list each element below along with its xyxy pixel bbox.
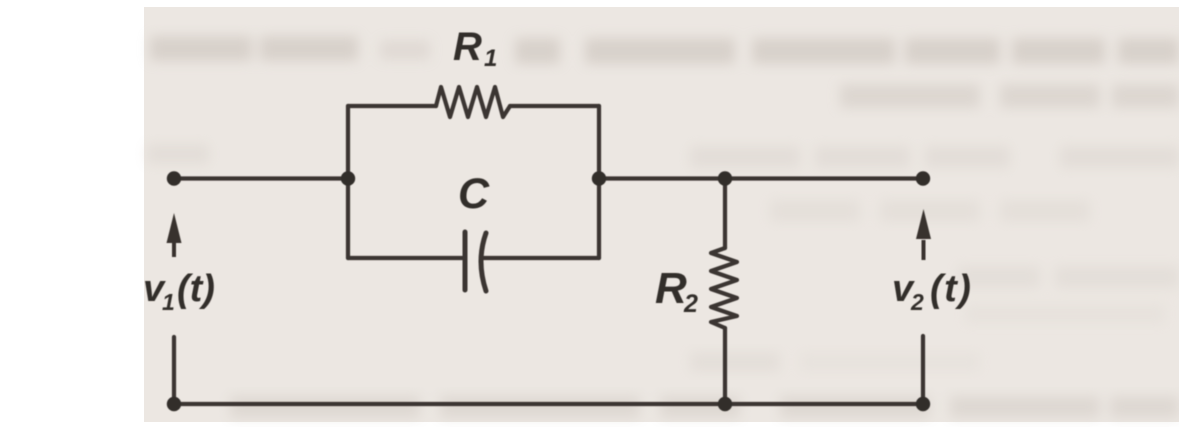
show-through smudge row 5 bbox=[958, 266, 1179, 324]
label v1(t) bbox=[143, 268, 215, 315]
wire: C branch left lead bbox=[348, 256, 462, 260]
svg-text:(t): (t) bbox=[177, 268, 215, 310]
wire: bottom return wire bbox=[174, 402, 923, 406]
svg-text:R: R bbox=[453, 25, 482, 69]
node dot: input top bbox=[167, 171, 181, 185]
wire: R1 branch left lead bbox=[348, 104, 436, 108]
label v2(t) bbox=[892, 268, 972, 315]
arrow v1 polarity bbox=[167, 213, 182, 257]
capacitor C right curved plate bbox=[481, 233, 486, 291]
show-through smudge row 4 bbox=[770, 200, 1090, 222]
svg-text:1: 1 bbox=[162, 289, 175, 315]
wire: input top from node A to node B bbox=[174, 176, 348, 180]
show-through smudge bottom row bbox=[230, 396, 1179, 418]
wire: R2 top lead bbox=[723, 179, 727, 249]
label R2 bbox=[655, 264, 698, 318]
svg-text:1: 1 bbox=[484, 45, 497, 72]
label R1 bbox=[453, 25, 497, 72]
arrow v2 polarity bbox=[916, 209, 931, 260]
svg-text:(t): (t) bbox=[930, 268, 972, 310]
svg-text:R: R bbox=[655, 264, 687, 313]
show-through smudge row 6 bbox=[690, 352, 980, 372]
node dot: output top bbox=[916, 171, 930, 185]
show-through smudge row 2 bbox=[840, 84, 1179, 108]
node dot: junction B left of block bbox=[341, 171, 355, 185]
node dot: R2 top bbox=[718, 171, 732, 185]
node dot: input bottom bbox=[167, 397, 181, 411]
svg-text:C: C bbox=[458, 170, 490, 218]
node dot: junction right of block bbox=[592, 171, 606, 185]
capacitor C left plate bbox=[463, 232, 468, 290]
wire: C branch right lead bbox=[483, 256, 599, 260]
node dot: output bottom bbox=[916, 397, 930, 411]
show-through smudge row 3 bbox=[147, 144, 1179, 168]
wire: v1 lower stub bbox=[172, 337, 176, 404]
wire: v2 lower stub bbox=[921, 336, 925, 404]
wire: R1 branch right lead bbox=[510, 104, 599, 108]
show-through smudge row 1 bbox=[150, 36, 1179, 64]
resistor R2 zigzag bbox=[711, 248, 737, 328]
wire: right vertical of parallel block bbox=[597, 106, 601, 258]
node dot: R2 bottom bbox=[718, 397, 732, 411]
wire: left vertical of parallel block bbox=[346, 106, 350, 258]
svg-text:2: 2 bbox=[910, 289, 924, 315]
svg-text:2: 2 bbox=[683, 290, 698, 318]
resistor R1 zigzag bbox=[436, 87, 510, 117]
wire: R2 bottom lead bbox=[723, 328, 727, 404]
wire: mid wire from node B2 to output node bbox=[599, 176, 923, 180]
